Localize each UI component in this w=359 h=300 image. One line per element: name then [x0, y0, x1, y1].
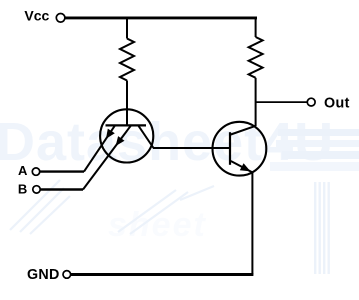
svg-text:GND: GND — [27, 267, 60, 283]
svg-text:Out: Out — [324, 95, 350, 111]
svg-text:sheet: sheet — [108, 206, 207, 244]
svg-text:B: B — [18, 182, 27, 197]
svg-text:A: A — [18, 163, 28, 178]
svg-text:Vcc: Vcc — [24, 8, 49, 24]
